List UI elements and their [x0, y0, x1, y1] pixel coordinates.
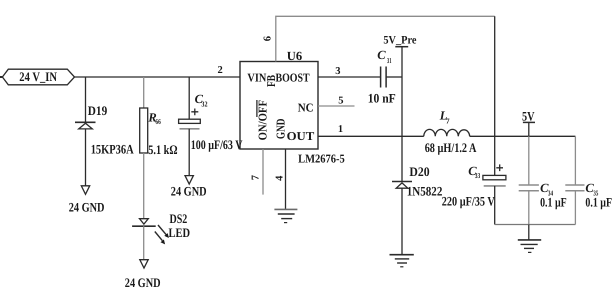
svg-text:31: 31 — [387, 56, 392, 65]
svg-text:3: 3 — [335, 66, 340, 77]
svg-text:220 µF/35 V: 220 µF/35 V — [442, 194, 495, 209]
svg-text:7: 7 — [446, 116, 450, 125]
svg-text:5: 5 — [338, 96, 343, 107]
svg-text:32: 32 — [201, 100, 207, 109]
svg-text:2: 2 — [218, 65, 223, 76]
svg-text:BOOST: BOOST — [276, 71, 310, 85]
svg-text:6: 6 — [262, 36, 273, 41]
svg-text:0.1 µF: 0.1 µF — [585, 194, 612, 209]
svg-text:33: 33 — [475, 171, 481, 180]
svg-text:ON/OFF: ON/OFF — [256, 100, 270, 140]
svg-text:NC: NC — [298, 100, 314, 114]
svg-text:1N5822: 1N5822 — [407, 183, 443, 198]
svg-text:5V_Pre: 5V_Pre — [383, 34, 416, 46]
svg-text:24 GND: 24 GND — [125, 275, 161, 290]
svg-text:5V: 5V — [522, 109, 535, 124]
svg-text:10 nF: 10 nF — [368, 91, 396, 106]
svg-text:0.1 µF: 0.1 µF — [540, 194, 567, 209]
svg-text:U6: U6 — [287, 49, 302, 63]
svg-text:68 µH/1.2 A: 68 µH/1.2 A — [425, 140, 477, 155]
svg-text:C: C — [377, 48, 386, 62]
svg-text:15KP36A: 15KP36A — [91, 142, 134, 157]
svg-text:24 GND: 24 GND — [69, 200, 105, 215]
svg-text:FB: FB — [264, 75, 278, 87]
svg-text:OUT: OUT — [287, 129, 315, 143]
svg-text:5.1 kΩ: 5.1 kΩ — [148, 142, 177, 157]
svg-text:100 µF/63 V: 100 µF/63 V — [191, 137, 243, 152]
svg-text:66: 66 — [155, 117, 161, 126]
svg-text:4: 4 — [274, 175, 285, 181]
svg-text:24 GND: 24 GND — [171, 184, 207, 199]
svg-text:24 V_IN: 24 V_IN — [19, 69, 57, 84]
svg-text:LM2676-5: LM2676-5 — [298, 152, 345, 166]
svg-text:1: 1 — [338, 124, 343, 135]
svg-text:DS2: DS2 — [170, 211, 188, 226]
svg-text:D19: D19 — [88, 103, 108, 118]
svg-text:7: 7 — [250, 175, 261, 180]
svg-text:D20: D20 — [409, 164, 429, 179]
svg-text:GND: GND — [274, 118, 288, 139]
svg-text:LED: LED — [169, 225, 191, 240]
